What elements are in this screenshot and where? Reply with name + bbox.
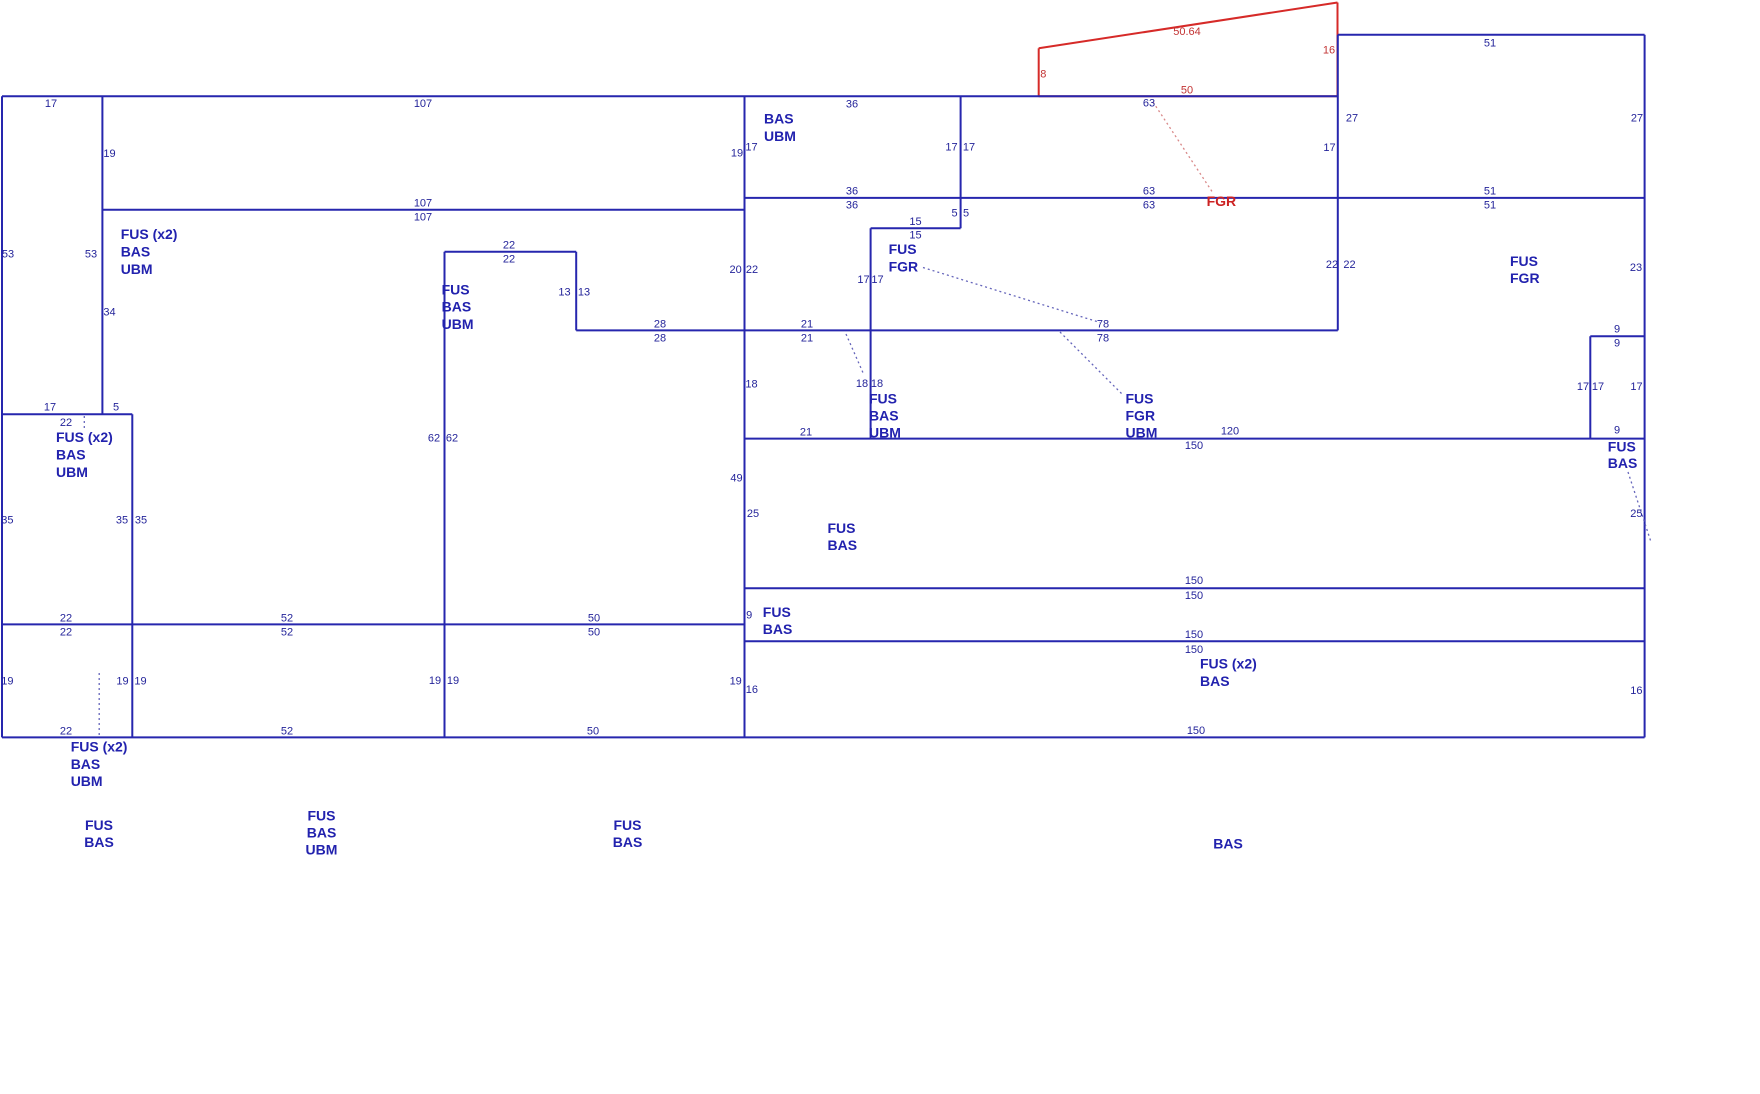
wall y588 [745, 587, 1645, 589]
svg-text:28: 28 [654, 333, 666, 345]
wall x132 [131, 414, 133, 737]
room label FUS BAS UBM below [306, 808, 338, 858]
svg-text:9: 9 [746, 610, 752, 622]
svg-text:36: 36 [846, 99, 858, 111]
svg-text:78: 78 [1097, 319, 1109, 331]
wall x102 [101, 96, 103, 414]
wall x1337 [1337, 35, 1339, 331]
svg-text:BAS: BAS [763, 621, 793, 637]
svg-text:34: 34 [103, 307, 115, 319]
svg-text:BAS: BAS [71, 756, 101, 772]
svg-text:25: 25 [1630, 508, 1642, 520]
right outer wall [1644, 35, 1646, 738]
wall y252 [445, 251, 577, 253]
svg-text:FUS: FUS [1126, 391, 1154, 407]
svg-text:28: 28 [654, 319, 666, 331]
svg-text:17: 17 [1630, 381, 1642, 393]
svg-text:50.64: 50.64 [1173, 26, 1201, 38]
svg-text:150: 150 [1185, 590, 1203, 602]
svg-text:BAS: BAS [1200, 673, 1230, 689]
room label FUS BAS below-left [84, 817, 114, 850]
svg-text:19: 19 [134, 676, 146, 688]
svg-text:50: 50 [587, 726, 599, 738]
room label FUS FGR right [1510, 253, 1540, 286]
svg-text:62: 62 [446, 433, 458, 445]
svg-text:FGR: FGR [1126, 408, 1156, 424]
svg-text:27: 27 [1346, 113, 1358, 125]
svg-text:FUS: FUS [614, 817, 642, 833]
svg-text:50: 50 [1181, 85, 1193, 97]
svg-text:16: 16 [1630, 685, 1642, 697]
svg-text:63: 63 [1143, 98, 1155, 110]
svg-text:17: 17 [44, 402, 56, 414]
svg-text:23: 23 [1630, 262, 1642, 274]
svg-text:17: 17 [1323, 142, 1335, 154]
svg-text:52: 52 [281, 726, 293, 738]
svg-text:35: 35 [135, 515, 147, 527]
room label FUS BAS big middle [828, 520, 858, 553]
svg-text:17: 17 [745, 142, 757, 154]
svg-text:UBM: UBM [71, 773, 103, 789]
svg-text:FUS (x2): FUS (x2) [1200, 656, 1257, 672]
svg-text:19: 19 [1, 676, 13, 688]
wall y438 [745, 438, 1645, 440]
svg-text:17: 17 [963, 142, 975, 154]
room label FUS BAS strip [763, 604, 793, 637]
wall y641 [745, 640, 1645, 642]
wall y624 [2, 623, 745, 625]
svg-text:FUS: FUS [85, 817, 113, 833]
wall y414 [2, 413, 132, 415]
svg-text:BAS: BAS [121, 244, 151, 260]
room label FUS (x2) BAS UBM lower-left [71, 738, 128, 789]
wall y336 notch top [1590, 335, 1644, 337]
svg-text:107: 107 [414, 198, 432, 210]
svg-text:21: 21 [801, 319, 813, 331]
room label FUS FGR small [889, 241, 919, 275]
svg-text:22: 22 [746, 264, 758, 276]
top outer wall [2, 95, 1338, 97]
red garage bottom wall [1039, 95, 1338, 97]
svg-text:22: 22 [60, 726, 72, 738]
svg-text:BAS: BAS [1608, 455, 1638, 471]
svg-text:UBM: UBM [121, 261, 153, 277]
svg-text:13: 13 [558, 287, 570, 299]
svg-text:FUS: FUS [1510, 253, 1538, 269]
svg-text:51: 51 [1484, 200, 1496, 212]
svg-text:FGR: FGR [1510, 270, 1540, 286]
svg-text:BAS: BAS [307, 825, 337, 841]
red garage left wall [1038, 48, 1040, 96]
svg-text:36: 36 [846, 186, 858, 198]
svg-text:UBM: UBM [442, 316, 474, 332]
svg-text:17: 17 [871, 274, 883, 286]
svg-text:78: 78 [1097, 333, 1109, 345]
svg-text:63: 63 [1143, 200, 1155, 212]
svg-text:FUS (x2): FUS (x2) [121, 226, 178, 242]
wall x444 [444, 252, 446, 738]
svg-text:35: 35 [1, 515, 13, 527]
svg-text:51: 51 [1484, 38, 1496, 50]
wall x870 [870, 228, 872, 438]
red garage right wall [1337, 3, 1339, 97]
svg-text:13: 13 [578, 287, 590, 299]
room label FUS FGR UBM [1126, 391, 1158, 441]
svg-text:53: 53 [85, 249, 97, 261]
svg-text:50: 50 [588, 627, 600, 639]
svg-text:8: 8 [1040, 69, 1046, 81]
svg-text:150: 150 [1185, 644, 1203, 656]
svg-text:18: 18 [856, 378, 868, 390]
svg-text:FGR: FGR [1207, 193, 1237, 209]
svg-text:150: 150 [1187, 725, 1205, 737]
svg-text:BAS: BAS [828, 537, 858, 553]
wall y210 [102, 209, 744, 211]
wall x960 [960, 96, 962, 228]
svg-text:19: 19 [447, 675, 459, 687]
svg-text:FUS: FUS [869, 391, 897, 407]
svg-text:FUS: FUS [1608, 439, 1636, 455]
wall x744 [744, 96, 746, 737]
dotted tick below wall y414 [83, 416, 85, 429]
svg-text:17: 17 [857, 274, 869, 286]
svg-text:52: 52 [281, 627, 293, 639]
dimension labels bottom [1, 575, 1642, 738]
svg-text:FGR: FGR [889, 259, 919, 275]
svg-text:35: 35 [116, 515, 128, 527]
svg-text:18: 18 [745, 379, 757, 391]
svg-text:22: 22 [1343, 259, 1355, 271]
svg-text:150: 150 [1185, 575, 1203, 587]
svg-text:UBM: UBM [306, 842, 338, 858]
svg-text:FUS: FUS [442, 281, 470, 297]
svg-text:25: 25 [747, 508, 759, 520]
svg-text:BAS: BAS [869, 408, 899, 424]
svg-text:21: 21 [801, 333, 813, 345]
room label FUS (x2) BAS UBM left-block [56, 429, 113, 480]
svg-text:5: 5 [951, 208, 957, 220]
svg-text:16: 16 [746, 684, 758, 696]
svg-text:50: 50 [588, 613, 600, 625]
svg-text:UBM: UBM [56, 464, 88, 480]
top-right outer wall [1338, 34, 1645, 36]
wall y330 [576, 329, 1338, 331]
svg-text:9: 9 [1614, 324, 1620, 336]
room label FUS BAS UBM at x444 [442, 281, 474, 332]
room label FUS BAS below-mid [613, 817, 643, 850]
dotted leader FUS FGR to 78 [923, 268, 1100, 323]
wall x1590 notch [1589, 336, 1591, 438]
room label FUS (x2) BAS UBM top-left [121, 226, 178, 277]
svg-text:BAS: BAS [442, 299, 472, 315]
svg-text:UBM: UBM [869, 425, 901, 441]
svg-text:5: 5 [963, 208, 969, 220]
svg-text:17: 17 [945, 142, 957, 154]
svg-text:19: 19 [731, 148, 743, 160]
svg-text:51: 51 [1484, 186, 1496, 198]
svg-text:BAS: BAS [1213, 836, 1243, 852]
svg-text:22: 22 [60, 417, 72, 429]
dotted leader left lower block [98, 673, 100, 736]
svg-text:36: 36 [846, 200, 858, 212]
svg-text:UBM: UBM [764, 128, 796, 144]
svg-text:UBM: UBM [1126, 425, 1158, 441]
dimension labels top [45, 38, 1643, 224]
svg-text:FUS: FUS [889, 241, 917, 257]
dimension labels red garage [1040, 26, 1335, 97]
wall x576 [575, 252, 577, 331]
svg-text:9: 9 [1614, 338, 1620, 350]
svg-text:9: 9 [1614, 425, 1620, 437]
wall y198 [745, 197, 1645, 199]
svg-text:17: 17 [1577, 381, 1589, 393]
svg-text:FUS: FUS [763, 604, 791, 620]
svg-text:BAS: BAS [764, 110, 794, 126]
svg-text:17: 17 [1592, 381, 1604, 393]
svg-text:FUS: FUS [828, 520, 856, 536]
svg-text:107: 107 [414, 98, 432, 110]
svg-text:22: 22 [503, 254, 515, 266]
dimension labels middle [1, 208, 1642, 622]
left outer wall [1, 96, 3, 737]
svg-text:BAS: BAS [613, 834, 643, 850]
room label BAS bottom [1213, 836, 1243, 852]
svg-text:22: 22 [1326, 259, 1338, 271]
wall y228 jog [871, 227, 961, 229]
dotted leader FUS BAS right edge [1628, 472, 1651, 542]
svg-text:53: 53 [2, 249, 14, 261]
svg-text:22: 22 [60, 613, 72, 625]
svg-text:18: 18 [871, 378, 883, 390]
svg-text:62: 62 [428, 433, 440, 445]
svg-text:15: 15 [909, 216, 921, 228]
svg-text:21: 21 [800, 426, 812, 438]
svg-text:20: 20 [729, 264, 741, 276]
room label FUS (x2) BAS bottom strip [1200, 656, 1257, 689]
dotted leader 21 to FUS BAS UBM [846, 334, 864, 375]
svg-text:22: 22 [60, 627, 72, 639]
bottom outer wall [2, 736, 1645, 738]
svg-text:19: 19 [730, 676, 742, 688]
svg-text:19: 19 [116, 676, 128, 688]
room label BAS UBM top [764, 110, 796, 144]
svg-text:FUS (x2): FUS (x2) [56, 429, 113, 445]
svg-text:107: 107 [414, 212, 432, 224]
svg-text:16: 16 [1323, 45, 1335, 57]
svg-text:17: 17 [45, 98, 57, 110]
svg-text:150: 150 [1185, 629, 1203, 641]
svg-text:BAS: BAS [56, 446, 86, 462]
svg-text:120: 120 [1221, 426, 1239, 438]
svg-text:52: 52 [281, 613, 293, 625]
svg-text:FUS: FUS [308, 808, 336, 824]
svg-text:19: 19 [429, 675, 441, 687]
svg-text:FUS (x2): FUS (x2) [71, 738, 128, 754]
svg-text:BAS: BAS [84, 834, 114, 850]
svg-text:22: 22 [503, 240, 515, 252]
dotted red leader to FGR [1153, 102, 1213, 193]
room label FUS BAS notch right [1608, 439, 1638, 472]
red garage roof diagonal [1039, 3, 1338, 49]
svg-text:15: 15 [909, 230, 921, 242]
svg-text:63: 63 [1143, 186, 1155, 198]
svg-text:5: 5 [113, 402, 119, 414]
svg-text:49: 49 [730, 473, 742, 485]
svg-text:19: 19 [103, 148, 115, 160]
room label FUS BAS UBM middle [869, 391, 901, 441]
svg-text:150: 150 [1185, 440, 1203, 452]
dotted leader 78 to FUS FGR UBM [1060, 332, 1122, 394]
svg-text:27: 27 [1631, 113, 1643, 125]
